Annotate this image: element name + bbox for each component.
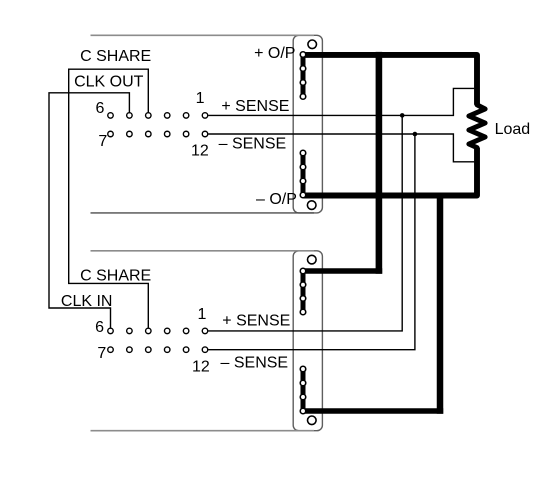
PSU1 -O/P bus bar <box>301 153 306 195</box>
PSU1 mounting hole top <box>308 40 317 49</box>
svg-text:– O/P: – O/P <box>256 191 297 208</box>
thick wire PSU2 +O/P horizontal <box>303 268 382 274</box>
PSU2 signal pin row bottom (pins 7..12) <box>108 347 208 353</box>
PSU2 mounting hole bottom <box>308 416 317 425</box>
svg-text:1: 1 <box>198 306 207 323</box>
svg-text:+ O/P: + O/P <box>254 45 295 62</box>
PSU2 -O/P bus bar <box>301 369 306 411</box>
wire -SENSE PSU1 to load bottom bracket <box>208 134 474 162</box>
svg-text:– SENSE: – SENSE <box>219 136 287 153</box>
PSU1 +O/P bus bar <box>301 55 306 97</box>
PSU1 mounting hole bottom <box>307 201 316 210</box>
junction dot -SENSE <box>413 132 418 137</box>
svg-text:+ SENSE: + SENSE <box>221 98 289 115</box>
svg-text:7: 7 <box>98 133 107 150</box>
svg-text:6: 6 <box>96 100 105 117</box>
thick wire load right lower segment <box>303 148 477 196</box>
svg-text:12: 12 <box>192 359 210 376</box>
thick wire paralleling vertical -O/P to PSU2 <box>437 193 444 414</box>
PSU2 mounting hole top <box>308 255 317 264</box>
svg-text:12: 12 <box>191 142 209 159</box>
PSU1 top edge <box>91 34 315 36</box>
thick wire PSU2 -O/P horizontal <box>303 408 443 414</box>
PSU2 +O/P pin circles <box>300 268 306 315</box>
PSU2 -O/P pin circles <box>300 366 306 414</box>
resistor Load zigzag <box>469 105 485 148</box>
PSU2 signal pin row top (pins 6..1) <box>108 328 208 334</box>
svg-text:+ SENSE: + SENSE <box>222 312 290 329</box>
PSU1 +O/P pin circles <box>300 52 306 100</box>
PSU1 signal pin row top (pins 6..1) <box>108 113 208 119</box>
wire +SENSE PSU1 to load top bracket <box>208 88 474 115</box>
PSU2 top edge <box>91 250 315 252</box>
svg-text:6: 6 <box>95 319 104 336</box>
wire CLK OUT to CLK IN (PSU1 pin5 to PSU2 pin6) <box>49 93 129 328</box>
svg-text:Load: Load <box>495 121 531 138</box>
svg-text:7: 7 <box>97 345 106 362</box>
thick wire +O/P PSU1 to load and load resistor loop <box>303 55 477 105</box>
wire C SHARE (PSU1 pin4 to PSU2 pin4) <box>69 69 149 328</box>
svg-text:CLK IN: CLK IN <box>61 293 113 310</box>
svg-text:C SHARE: C SHARE <box>80 268 151 285</box>
wire +SENSE PSU2 up to junction <box>208 115 402 331</box>
thick wire paralleling vertical +O/P bus to PSU2 <box>376 52 383 274</box>
junction dot +SENSE <box>400 113 405 118</box>
wire -SENSE PSU2 up to junction <box>208 134 415 350</box>
PSU1 -O/P pin circles <box>300 150 306 198</box>
svg-text:– SENSE: – SENSE <box>221 355 289 372</box>
PSU1 signal pin row bottom (pins 7..12) <box>108 131 208 137</box>
svg-text:C SHARE: C SHARE <box>80 48 151 65</box>
PSU2 bottom edge <box>91 430 315 432</box>
svg-text:1: 1 <box>196 90 205 107</box>
PSU2 connector strip body <box>293 251 322 431</box>
PSU2 +O/P bus bar <box>301 271 306 312</box>
svg-text:CLK OUT: CLK OUT <box>74 73 144 90</box>
PSU1 bottom edge <box>91 212 315 214</box>
PSU1 connector strip body <box>293 35 322 213</box>
